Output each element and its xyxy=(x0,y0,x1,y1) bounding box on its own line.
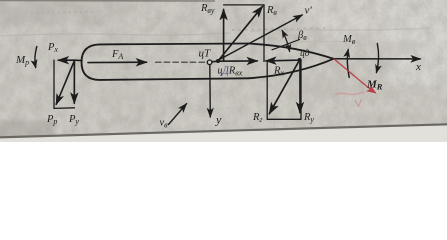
force R_B diagonal arrow xyxy=(218,7,262,62)
velocity v' arrow xyxy=(219,15,302,60)
beta_B leader line xyxy=(272,40,300,50)
force R_y arrow down xyxy=(299,61,301,113)
svg-text:v': v' xyxy=(305,5,313,17)
bottom page edge band xyxy=(0,126,447,143)
velocity v_B arrow xyxy=(169,104,187,125)
faint crease line upper-left xyxy=(0,33,230,36)
wire: P attachment nub xyxy=(75,59,82,61)
top edge dark line xyxy=(0,0,215,2)
R construction rectangle bottom edge xyxy=(267,118,301,120)
nose ogive bottom xyxy=(248,59,334,79)
faint streaks top-right xyxy=(250,28,430,31)
moment M_R red curve xyxy=(334,59,376,94)
R_B construction rectangle top xyxy=(224,4,264,6)
svg-text:цд: цд xyxy=(300,48,310,59)
force R_x arrow left xyxy=(266,59,301,62)
svg-text:y: y xyxy=(215,113,222,127)
force R_r diagonal arrow xyxy=(269,62,298,114)
R construction rectangle right edge xyxy=(300,60,302,119)
svg-text:x: x xyxy=(415,61,421,73)
paper light top-right area xyxy=(0,0,447,145)
wire: axis segment CG to CP xyxy=(208,61,219,62)
nose ogive top xyxy=(248,44,334,59)
faint smudges lower area xyxy=(2,5,425,101)
force P_x arrow left xyxy=(58,59,74,61)
svg-text:цТ: цТ xyxy=(199,48,212,60)
R_B construction rectangle right xyxy=(263,5,265,62)
force R_Bx arrow right xyxy=(218,60,257,62)
paper background xyxy=(0,0,447,142)
thrust force F_A arrow xyxy=(88,61,147,63)
y axis from CG down xyxy=(209,65,212,117)
P construction rectangle bottom edge xyxy=(54,107,75,110)
axis dash line F_A tip to CG xyxy=(156,61,206,63)
CG open circle xyxy=(207,60,212,65)
P construction rectangle left edge xyxy=(53,60,55,108)
moment arc right (arrow down) xyxy=(376,44,378,73)
force P_p diagonal arrow xyxy=(56,60,74,104)
rocket body outline xyxy=(82,44,249,80)
paper mottle noise xyxy=(0,0,447,142)
red stray tick xyxy=(335,92,365,94)
force P_y arrow down xyxy=(73,60,75,103)
CP dot at nose xyxy=(298,58,302,62)
moment M_B arc left (arrow up) xyxy=(347,50,349,78)
R construction rectangle left edge xyxy=(266,63,268,120)
moment M_p arc xyxy=(35,47,37,68)
x axis from nose tip xyxy=(334,58,421,60)
CP dot near CG xyxy=(216,59,220,63)
angle beta_B arc double arrow xyxy=(282,31,289,52)
force R_By arrow up xyxy=(223,10,225,61)
